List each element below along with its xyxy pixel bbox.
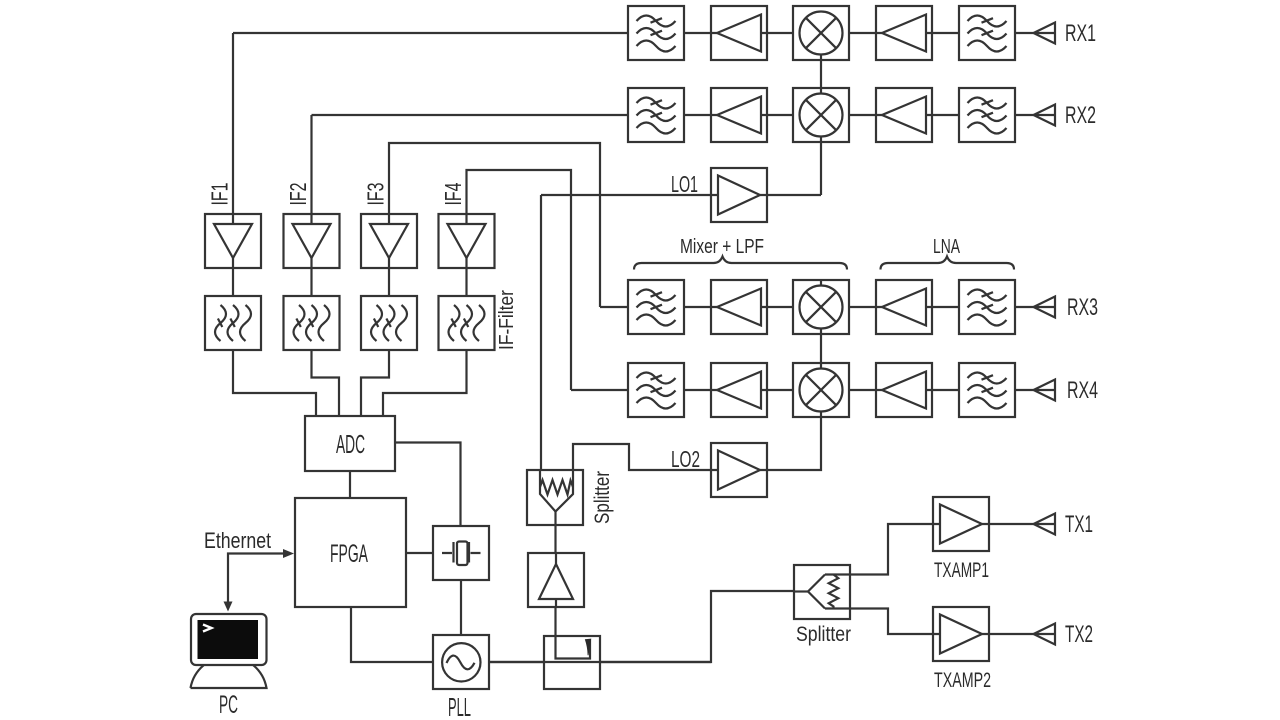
svg-text:RX4: RX4 [1067,377,1098,404]
svg-text:Splitter: Splitter [796,623,851,646]
svg-text:IF2: IF2 [285,183,311,206]
svg-text:IF-Filter: IF-Filter [496,290,518,350]
svg-text:LNA: LNA [933,236,960,258]
svg-text:TX2: TX2 [1065,621,1093,648]
svg-text:FPGA: FPGA [330,540,368,568]
svg-text:PC: PC [219,691,238,719]
svg-text:RX1: RX1 [1065,20,1096,47]
svg-text:TX1: TX1 [1065,511,1093,538]
svg-text:TXAMP2: TXAMP2 [934,669,991,692]
svg-text:PLL: PLL [448,692,471,720]
svg-text:LO2: LO2 [671,446,700,472]
svg-text:LO1: LO1 [671,171,698,197]
svg-text:ADC: ADC [336,429,365,459]
svg-text:IF1: IF1 [207,183,233,206]
svg-text:Mixer + LPF: Mixer + LPF [680,236,764,258]
svg-text:RX2: RX2 [1065,102,1096,129]
svg-text:TXAMP1: TXAMP1 [934,559,989,582]
svg-text:Ethernet: Ethernet [204,528,271,553]
svg-text:Splitter: Splitter [591,471,614,524]
svg-text:RX3: RX3 [1067,294,1098,321]
svg-text:IF3: IF3 [363,183,389,206]
svg-text:IF4: IF4 [440,182,466,205]
